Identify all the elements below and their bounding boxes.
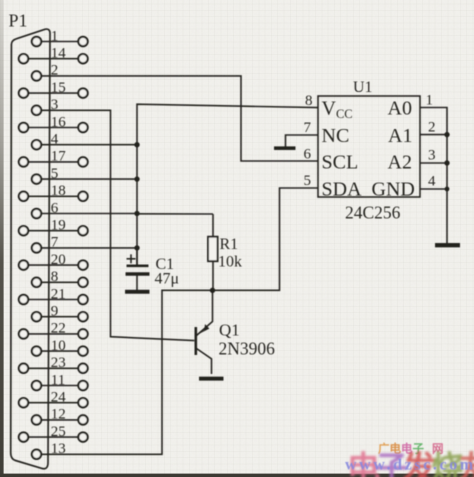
junction pin 5 / Vcc bus (134, 176, 139, 181)
svg-text:14: 14 (51, 46, 67, 62)
svg-text:16: 16 (51, 114, 67, 130)
wire U1 pin4 GND stub (420, 188, 447, 190)
P1 pin 11 (32, 372, 88, 390)
svg-text:SDA: SDA (322, 179, 363, 201)
wire U1 pin3 A2 stub (420, 162, 447, 164)
junction A1 / ground bus (444, 132, 449, 137)
svg-text:6: 6 (304, 147, 312, 163)
wire Vcc bus to R1 top (137, 213, 213, 215)
svg-text:12: 12 (51, 407, 66, 423)
wire P1 pin 4 to Vcc bus (41, 144, 137, 146)
P1 pin 6 (32, 200, 59, 218)
svg-text:1: 1 (51, 28, 59, 44)
svg-text:2N3906: 2N3906 (219, 339, 276, 359)
junction GND / ground bus (445, 187, 450, 192)
P1 pin 1 (32, 28, 88, 46)
P1 pin 16 (19, 114, 88, 132)
P1 pin 5 (32, 166, 59, 184)
P1 pin 12 (32, 407, 88, 425)
connector P1 shell (11, 29, 50, 469)
wire P1 pin 5 to Vcc bus (41, 178, 137, 180)
svg-text:3: 3 (428, 148, 436, 164)
P1 pin 17 (19, 149, 88, 167)
wire P1 pin 13 to U1 SDA (41, 188, 318, 454)
P1 pin 9 (32, 304, 88, 322)
svg-text:P1: P1 (9, 11, 28, 31)
wire P1 pin 3 to Q1 base (41, 110, 194, 340)
P1 pin 2 (32, 63, 59, 81)
svg-text:7: 7 (304, 120, 312, 136)
wire P1 pin 7 to Vcc bus (41, 247, 137, 249)
svg-text:5: 5 (304, 173, 312, 189)
P1 pin 14 (19, 46, 88, 64)
svg-text:9: 9 (51, 304, 59, 320)
wire U1 pin2 A1 stub (420, 134, 447, 136)
svg-text:23: 23 (51, 355, 66, 371)
svg-text:A0: A0 (388, 98, 412, 120)
ground for NC (274, 146, 296, 150)
svg-text:15: 15 (51, 80, 66, 96)
junction pin 6 / Vcc bus (134, 211, 139, 216)
svg-text:10k: 10k (218, 254, 242, 271)
P1 pin 7 (32, 235, 59, 253)
wire Vcc bus and to U1 pin 8 (137, 104, 318, 265)
svg-text:R1: R1 (220, 236, 239, 253)
junction pin 4 / Vcc bus (134, 142, 139, 147)
wire P1 pin 2 to U1 SCL (41, 76, 318, 161)
scan edge left (0, 0, 4, 477)
svg-text:25: 25 (51, 424, 66, 440)
svg-text:2: 2 (428, 120, 436, 136)
resistor R1 (208, 214, 218, 290)
P1 pin 10 (32, 338, 88, 356)
P1 pin 21 (19, 286, 88, 304)
svg-text:A1: A1 (388, 125, 412, 147)
svg-text:19: 19 (51, 218, 66, 234)
svg-text:24C256: 24C256 (345, 203, 401, 223)
svg-text:1: 1 (426, 93, 434, 109)
svg-text:11: 11 (51, 372, 65, 388)
P1 pin 20 (19, 252, 88, 270)
P1 pin 18 (19, 183, 88, 201)
capacitor C1 (126, 248, 150, 291)
svg-text:24: 24 (51, 390, 67, 406)
P1 pin 24 (19, 390, 88, 408)
P1 pin 15 (19, 80, 88, 98)
junction R1 / SDA / Q1 collector (210, 288, 215, 293)
svg-text:NC: NC (322, 125, 350, 147)
transistor Q1 (196, 290, 213, 374)
wire U1 NC to ground (286, 135, 319, 147)
svg-text:SCL: SCL (322, 152, 359, 174)
svg-text:20: 20 (51, 252, 66, 268)
svg-text:www.dzsc.com: www.dzsc.com (345, 457, 474, 474)
svg-text:A2: A2 (388, 152, 412, 174)
junction pin 7 / Vcc bus (134, 245, 139, 250)
P1 pin 19 (19, 218, 88, 236)
ground for Q1 emitter (199, 377, 224, 381)
P1 pin 13 (32, 441, 66, 459)
P1 pin 4 (32, 132, 59, 150)
P1 pin 3 (32, 97, 59, 115)
svg-text:10: 10 (51, 338, 66, 354)
svg-text:8: 8 (51, 269, 59, 285)
junction A2 / ground bus (444, 160, 449, 165)
P1 pin 8 (32, 269, 88, 287)
P1 pin 25 (19, 424, 88, 442)
svg-text:22: 22 (51, 321, 66, 337)
scan edge bottom (0, 474, 474, 477)
op IC U1 box (318, 96, 420, 197)
svg-text:GND: GND (372, 179, 415, 201)
ground for U1 address pins (435, 243, 460, 247)
ground for C1 (125, 290, 150, 294)
svg-text:17: 17 (51, 149, 67, 165)
svg-text:Q1: Q1 (219, 321, 240, 340)
svg-text:U1: U1 (353, 79, 373, 96)
svg-text:47μ: 47μ (155, 271, 180, 288)
wire P1 pin 6 to Vcc bus (41, 213, 137, 215)
P1 pin 23 (19, 355, 88, 373)
svg-text:21: 21 (51, 286, 66, 302)
svg-text:4: 4 (428, 174, 436, 190)
svg-text:8: 8 (305, 93, 313, 109)
wire U1 pin1 A0 to ground bus (420, 108, 447, 244)
P1 pin 22 (19, 321, 88, 339)
svg-text:18: 18 (51, 183, 66, 199)
